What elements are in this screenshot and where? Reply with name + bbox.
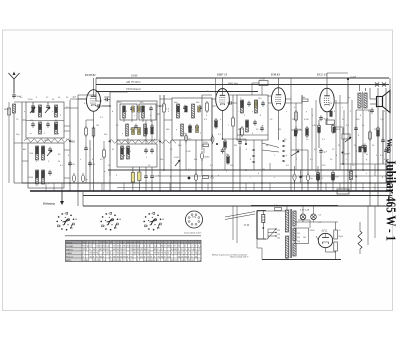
coil antenna input: [13, 104, 16, 113]
wire x262 col: [261, 140, 263, 191]
wire bus y170: [108, 169, 392, 171]
capacitor x363 mid: [361, 144, 365, 150]
resistor tube2 screen: [232, 116, 235, 128]
resistor on page-left column: [8, 108, 11, 115]
coil IF low 2: [127, 146, 130, 159]
tube U2 EBF11: [216, 89, 230, 111]
resistor x333 low: [332, 171, 335, 182]
capacitor IF low a: [144, 148, 148, 154]
svg-text:UKW: UKW: [131, 74, 138, 78]
box IF transformer I: [117, 101, 157, 140]
wire x70 column: [69, 100, 71, 191]
capacitor 0.1uF x186 top: [185, 135, 187, 139]
junction dots scattered: [109, 105, 111, 107]
tube socket diagram ECL11: [143, 212, 165, 230]
capacitor IF1 bottom a: [134, 124, 138, 130]
feedback pot arrow: [345, 137, 351, 142]
node x160: [159, 141, 161, 143]
wire right power col: [367, 206, 369, 245]
node x246: [245, 143, 247, 145]
wire ground bus y191: [30, 190, 392, 192]
wire tube4 top anode: [326, 78, 328, 88]
resistor yellow b: [138, 172, 141, 181]
svg-text:s: s: [220, 119, 221, 121]
coil IF low 1: [121, 146, 124, 159]
box Lsp terminal: [337, 189, 349, 194]
wire cord to switch: [225, 212, 255, 218]
rectifier tube: [318, 233, 332, 247]
capacitor det a: [247, 101, 251, 107]
svg-text:2k: 2k: [338, 145, 340, 147]
wire tube1 anode right: [102, 105, 110, 107]
resistor x104 mid: [103, 148, 106, 159]
wire tube4 down: [326, 112, 328, 124]
resistor 1M x296: [295, 110, 298, 122]
capacitor IF1 bottom b: [150, 124, 154, 130]
capacitor x86 mid: [84, 146, 88, 152]
svg-text:30k: 30k: [160, 159, 163, 161]
wire x344 col: [343, 170, 345, 191]
box ratio detector: [237, 95, 268, 140]
svg-text:k: k: [168, 111, 169, 113]
coil IF2 c: [181, 124, 184, 136]
coil IF2 a: [177, 104, 180, 118]
wire UKW bus: [96, 77, 389, 79]
power transformer secondary mid: [293, 228, 296, 241]
svg-text:50k: 50k: [302, 97, 305, 99]
box IF transformer II: [172, 98, 212, 140]
wire tube1 grid left: [78, 98, 87, 100]
wire x308 col: [307, 150, 309, 175]
wire tube1 top to UKW bus: [93, 78, 95, 90]
wire mains top y206 segment: [251, 205, 338, 207]
svg-text:1M: 1M: [246, 125, 249, 127]
wire AM bus: [96, 84, 389, 86]
capacitor 50pF x69: [68, 161, 72, 167]
capacitor det c: [253, 120, 257, 126]
wire tuner interconnects: [14, 101, 26, 103]
resistor below tube2 a: [215, 118, 218, 129]
capacitor x383 mid: [381, 138, 385, 144]
resistor x370 mid2: [369, 130, 372, 141]
resistor IF2: [206, 101, 209, 113]
wire x110 column: [109, 92, 111, 191]
electrolytic x196: [194, 172, 197, 183]
coil osc B1: [36, 146, 39, 160]
wire bus left y183: [22, 182, 392, 184]
svg-text:5k: 5k: [366, 154, 368, 156]
electrolytic 1uF: [72, 173, 75, 184]
coil tuner A4: [55, 122, 58, 134]
plug contacts right end: [375, 83, 379, 87]
coil tuner A3: [39, 122, 42, 134]
wire heater bus y206: [83, 205, 392, 207]
capacitor tube1 anode: [96, 104, 102, 108]
svg-text:2M: 2M: [278, 129, 281, 131]
svg-text:50k: 50k: [230, 165, 233, 167]
svg-text:TA/Tonband: TA/Tonband: [126, 87, 141, 91]
electrolytic filter 2: [334, 242, 338, 251]
wire x390 column: [389, 78, 391, 196]
box IF lower coils: [117, 144, 157, 167]
wire x319 col: [318, 120, 320, 126]
wire filter col: [335, 222, 337, 230]
coil osc B4: [42, 170, 45, 184]
wire mid interconnects: [102, 105, 110, 107]
svg-text:220V~: 220V~: [310, 230, 317, 232]
capacitor x152 low: [150, 174, 154, 180]
capacitor IF2 b: [198, 105, 202, 111]
svg-text:ECL 11: ECL 11: [316, 73, 327, 77]
svg-text:0,3M: 0,3M: [312, 125, 317, 127]
antenna: [9, 72, 20, 94]
svg-text:2n: 2n: [342, 119, 344, 121]
wire field resistor: [359, 222, 361, 231]
resistor tube1 cathode: [92, 126, 95, 138]
svg-text:ECH81: ECH81: [66, 246, 74, 248]
svg-text:50k: 50k: [104, 134, 107, 136]
svg-text:5000: 5000: [204, 157, 210, 159]
capacitor padder A4: [46, 122, 50, 128]
wire x78 column: [77, 95, 79, 206]
capacitor IF1 secondary: [149, 106, 153, 112]
table first column shading: [66, 240, 83, 261]
capacitor antenna 50pF: [12, 93, 16, 99]
node x70: [69, 140, 71, 142]
node feedback: [342, 152, 344, 154]
wire x233 col power: [232, 206, 234, 240]
svg-text:0,5M: 0,5M: [304, 119, 309, 121]
svg-text:ECL11: ECL11: [66, 257, 73, 259]
speaker: [377, 91, 391, 113]
resistor x378 mid: [377, 126, 380, 138]
value labels texture: [16, 91, 390, 187]
svg-text:240: 240: [303, 237, 306, 239]
svg-text:2k: 2k: [112, 149, 114, 151]
wire above table y235.8: [65, 235, 201, 237]
coil IF1 primary: [123, 106, 126, 118]
wire transformer bottom bus: [262, 259, 341, 261]
resistor x319 grid: [318, 124, 321, 135]
wire tube2 top: [222, 78, 224, 89]
svg-text:125: 125: [297, 237, 300, 239]
coil tuner A2: [55, 105, 58, 117]
resistor 50k horizontal x302: [302, 99, 308, 102]
svg-text:AM 75 Ohm: AM 75 Ohm: [125, 80, 141, 84]
svg-text:UKW: UKW: [44, 140, 49, 142]
svg-text:AM: AM: [23, 148, 26, 151]
coil osc B2: [42, 146, 45, 160]
power transformer core: [289, 209, 291, 258]
resistor x365 fb: [364, 144, 367, 154]
electrolytic x212 top: [211, 135, 214, 145]
svg-text:d: d: [150, 115, 151, 117]
capacitor 1uF across mains: [275, 208, 282, 211]
wire x180 column: [179, 140, 181, 168]
svg-text:EBF 11: EBF 11: [216, 73, 228, 77]
node fuse bottom: [262, 227, 264, 229]
dial lamp 2: [311, 212, 317, 223]
wire lamps top drops: [302, 206, 304, 212]
wire right-third verticals: [335, 100, 337, 170]
wire rectifier leads: [298, 219, 310, 221]
resistor 1.5k x164: [163, 102, 166, 114]
node 0.1uF junction: [347, 78, 349, 80]
wire selector col: [267, 229, 269, 239]
svg-text:Netzanschluß 220 V~: Netzanschluß 220 V~: [230, 256, 250, 259]
svg-text:240: 240: [277, 238, 280, 240]
capacitor IF1 primary: [130, 106, 134, 112]
contact bank small x252: [252, 149, 255, 151]
wire x160 column: [159, 95, 161, 191]
switch contact bank: [282, 140, 285, 142]
wire tube1 cathode down: [93, 111, 95, 191]
wire speaker leads: [370, 98, 377, 100]
wire TA bus left drop: [95, 78, 97, 101]
capacitor detector low: [260, 126, 264, 132]
power transformer secondary HT: [293, 211, 296, 226]
wire x86 col: [85, 120, 87, 128]
volume pot arrow: [291, 151, 299, 156]
svg-text:Jubilar 465 W - 1: Jubilar 465 W - 1: [383, 159, 398, 241]
coil IF1 tertiary: [126, 124, 129, 136]
wire left column x22: [21, 102, 23, 183]
box tuner front-end: [26, 102, 64, 138]
electrolytic 0.1uF x186: [184, 133, 187, 143]
resistor 5000 x333: [332, 124, 335, 135]
wire tuner box divider: [26, 120, 64, 122]
coil det b: [255, 100, 258, 113]
resistor field coil: [358, 231, 362, 249]
svg-text:25k: 25k: [214, 125, 217, 127]
box IF secondary cell: [139, 104, 156, 120]
box voltage panel: [296, 228, 309, 244]
svg-text:ECH 81: ECH 81: [84, 73, 96, 77]
feedback box: [342, 134, 350, 139]
svg-text:TW: TW: [329, 103, 332, 105]
wire y164 segment: [340, 163, 390, 165]
wire lamps bottom y222: [295, 221, 338, 223]
power transformer primary winding lower: [285, 236, 288, 258]
box RC coupling: [326, 120, 335, 125]
capacitor x386 mid: [384, 148, 388, 154]
svg-text:6,3V 0,2A: 6,3V 0,2A: [300, 209, 310, 212]
coil det a: [241, 100, 244, 113]
wire x356 column: [355, 110, 357, 191]
svg-text:AZ11: AZ11: [66, 259, 72, 262]
svg-text:c: c: [134, 115, 135, 117]
svg-text:h: h: [146, 157, 147, 159]
band switch wavy line mid: [108, 140, 176, 144]
svg-text:Röhre: Röhre: [66, 241, 73, 244]
svg-text:0,1µF: 0,1µF: [351, 77, 357, 79]
svg-text:2M: 2M: [234, 145, 237, 147]
svg-text:0,5M: 0,5M: [186, 151, 191, 153]
capacitor speaker: [370, 108, 374, 114]
wire x370 column: [369, 110, 371, 206]
svg-text:Quetschfuß unten: Quetschfuß unten: [184, 232, 202, 235]
box TAb: [203, 176, 209, 179]
wire bus y195.5: [83, 195, 392, 197]
svg-text:1M: 1M: [292, 119, 295, 121]
svg-text:1k: 1k: [352, 165, 354, 167]
wire transformer top leads: [286, 206, 288, 211]
wire x104 col: [103, 141, 105, 150]
wire antenna down: [13, 113, 15, 183]
wire x321 col down: [320, 155, 322, 192]
coil IF1 quaternary: [144, 124, 147, 136]
node x300: [299, 176, 301, 178]
wire bracket bottom to bus: [256, 239, 258, 248]
svg-text:220: 220: [277, 234, 280, 236]
wire bus y187.5: [117, 187, 392, 189]
capacitor trimmer A1: [31, 104, 35, 110]
wire x164 column: [163, 95, 165, 104]
svg-text:1n: 1n: [306, 139, 308, 141]
resistor detector low: [241, 126, 244, 137]
wire x386 column: [385, 88, 387, 183]
switch bracket mains: [257, 211, 266, 240]
tube socket diagram ECH81: [56, 212, 78, 230]
transformer output primary: [358, 93, 361, 108]
coil tuner A1: [39, 105, 42, 117]
box oscillator coils: [28, 143, 64, 188]
capacitor 0.1uF x90: [88, 161, 92, 167]
switch lever lines: [262, 143, 279, 148]
ground symbol: [60, 191, 64, 205]
svg-text:450: 450: [70, 140, 75, 144]
tube socket diagram EBF11: [100, 212, 122, 230]
transformer core lines: [362, 92, 364, 110]
svg-text:s: s: [274, 177, 275, 179]
svg-text:Wega: Wega: [385, 139, 394, 154]
svg-text:1k: 1k: [58, 161, 60, 163]
svg-text:110: 110: [297, 233, 300, 235]
wire x117 drop: [116, 140, 118, 144]
coil IF1 secondary: [142, 106, 145, 118]
wire vertical drops to lower buses: [127, 138, 129, 144]
wire x83 drop: [82, 191, 84, 206]
electrolytic 5uF: [81, 173, 84, 184]
svg-text:2k: 2k: [362, 125, 364, 127]
wire x348 column: [347, 78, 349, 191]
tube socket diagram Quetschfuss: [186, 211, 203, 228]
svg-text:g: g: [124, 155, 125, 157]
capacitor det b: [261, 101, 265, 107]
fuse: [262, 215, 265, 223]
svg-text:x: x: [52, 111, 53, 113]
svg-text:2M: 2M: [262, 169, 265, 171]
wire tube2 down: [222, 111, 224, 140]
resistor yellow a: [131, 173, 134, 183]
svg-text:g: g: [366, 159, 367, 161]
component blobs dark: [32, 101, 380, 180]
svg-text:d: d: [286, 155, 287, 157]
wire x171 column: [170, 140, 172, 191]
wire x383 col2: [382, 110, 384, 140]
svg-text:y: y: [306, 111, 307, 113]
capacitor padder A3: [31, 122, 35, 128]
svg-text:u: u: [252, 111, 253, 113]
wire right of tube3 columns: [295, 103, 297, 170]
svg-text:u: u: [366, 173, 367, 175]
svg-text:771: 771: [192, 216, 197, 219]
node x217: [216, 143, 218, 145]
resistor below tube2 b: [227, 154, 230, 165]
wire TA-Tonband bus: [96, 91, 258, 93]
selector lever: [268, 229, 276, 238]
capacitor IF2 c: [188, 124, 192, 130]
svg-text:EM 81: EM 81: [270, 73, 280, 77]
capacitor IF2 a: [183, 105, 187, 111]
wire tube3 down: [278, 110, 280, 140]
node x110 switch: [109, 141, 111, 143]
electrolytic x308: [306, 173, 309, 183]
coil small C740: [259, 81, 268, 86]
electrolytic 5000 x202: [200, 151, 203, 161]
coil osc B3: [36, 170, 39, 184]
svg-text:n: n: [158, 175, 159, 177]
wire transformer top: [359, 85, 361, 92]
wire x90 column: [89, 140, 91, 191]
svg-text:100pF: 100pF: [344, 154, 351, 156]
power transformer primary winding upper: [285, 210, 288, 232]
svg-text:1n: 1n: [20, 97, 22, 99]
band switch wavy line left: [24, 139, 70, 143]
svg-text:50k: 50k: [194, 159, 197, 161]
svg-text:C740: C740: [260, 79, 266, 81]
box IF primary cell: [120, 104, 137, 120]
svg-text:z: z: [320, 107, 321, 109]
svg-text:AZ 11: AZ 11: [321, 230, 329, 233]
wire x233: [232, 95, 234, 118]
svg-text:1,2k: 1,2k: [380, 119, 384, 121]
wire x343 col: [342, 128, 344, 134]
coil det c: [246, 120, 249, 132]
capacitor trimmer A2: [46, 104, 50, 110]
capacitor IF2 d: [195, 124, 199, 130]
wire mains top y211: [257, 210, 286, 212]
svg-text:2×: 2×: [339, 229, 341, 232]
transformer output secondary: [364, 93, 367, 108]
svg-text:x: x: [286, 111, 287, 113]
wire fuse leads: [262, 210, 264, 215]
table measured values: [66, 240, 202, 261]
capacitor osc pad: [48, 170, 52, 176]
capacitor 50uF x321: [319, 115, 323, 121]
resistor x86 mid: [85, 126, 88, 137]
capacitor IF low b: [150, 148, 154, 154]
wire tube3 top: [278, 78, 280, 88]
svg-text:EBF11: EBF11: [66, 249, 73, 251]
tube U3 EABC80: [272, 88, 286, 111]
coil IF2 b: [192, 104, 195, 118]
power transformer heater winding: [293, 243, 296, 256]
resistor 5000 horizontal: [203, 144, 209, 147]
capacitor 5000 top: [104, 98, 110, 102]
wire x196 col: [195, 140, 197, 174]
electrolytic filter 1: [334, 230, 338, 239]
electrolytic x296 low: [294, 126, 297, 137]
node x188 blob: [188, 177, 191, 180]
capacitor x240 mid: [238, 139, 242, 145]
wire antenna to ground bus: [14, 182, 22, 184]
capacitor osc trim: [48, 147, 52, 153]
svg-text:10k: 10k: [298, 129, 301, 131]
coil x351 low: [350, 171, 353, 180]
capacitor x146 low: [144, 174, 148, 180]
pot arrow x178: [175, 160, 180, 166]
